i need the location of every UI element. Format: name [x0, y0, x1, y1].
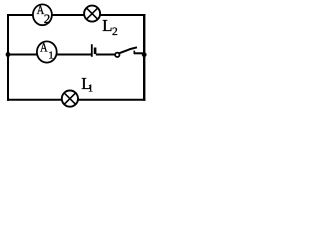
svg-text:2: 2 — [112, 26, 118, 38]
svg-text:1: 1 — [48, 50, 53, 61]
svg-text:2: 2 — [44, 11, 51, 26]
svg-text:1: 1 — [88, 84, 93, 95]
svg-text:A: A — [40, 40, 48, 55]
svg-text:L: L — [102, 16, 112, 35]
